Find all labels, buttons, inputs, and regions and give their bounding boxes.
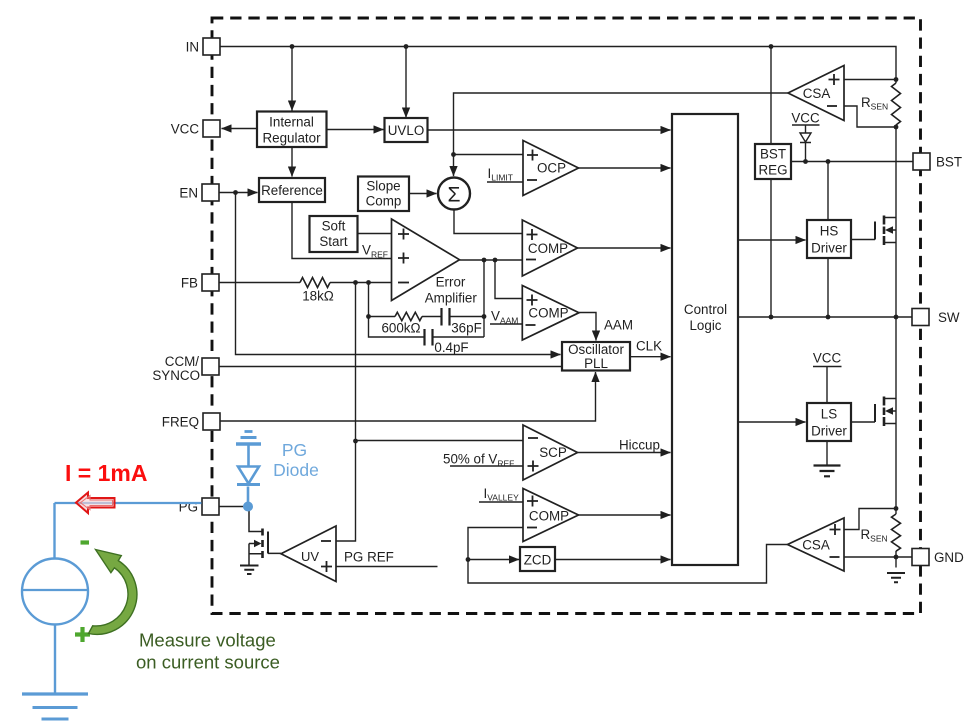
svg-text:Control: Control	[684, 302, 727, 317]
svg-text:PLL: PLL	[584, 356, 608, 371]
svg-text:COMP: COMP	[528, 241, 568, 256]
svg-text:LS: LS	[821, 407, 837, 422]
svg-text:CCM/: CCM/	[165, 354, 199, 369]
svg-text:0.4pF: 0.4pF	[434, 340, 468, 355]
svg-text:PG REF: PG REF	[344, 550, 394, 565]
svg-text:Driver: Driver	[811, 424, 847, 439]
svg-text:Diode: Diode	[273, 460, 319, 480]
svg-text:BST: BST	[760, 147, 786, 162]
svg-text:Regulator: Regulator	[262, 131, 321, 146]
svg-text:36pF: 36pF	[451, 321, 482, 336]
svg-text:Amplifier: Amplifier	[425, 291, 478, 306]
svg-text:OCP: OCP	[537, 161, 566, 176]
svg-text:Error: Error	[436, 275, 466, 290]
svg-text:PG: PG	[179, 500, 198, 515]
svg-text:SYNCO: SYNCO	[152, 368, 200, 383]
svg-text:Soft: Soft	[322, 219, 346, 234]
svg-text:GND: GND	[934, 550, 964, 565]
svg-text:VAAM: VAAM	[491, 309, 518, 326]
svg-text:VCC: VCC	[171, 122, 200, 137]
svg-text:VCC: VCC	[791, 111, 820, 126]
svg-text:I = 1mA: I = 1mA	[65, 460, 147, 486]
svg-text:18kΩ: 18kΩ	[302, 289, 334, 304]
svg-text:Reference: Reference	[261, 183, 323, 198]
svg-text:SCP: SCP	[539, 445, 567, 460]
svg-text:Logic: Logic	[689, 318, 721, 333]
svg-text:FREQ: FREQ	[162, 415, 199, 430]
svg-text:Measure voltage: Measure voltage	[139, 630, 276, 651]
svg-text:BST: BST	[936, 155, 962, 170]
svg-text:AAM: AAM	[604, 318, 633, 333]
svg-text:Driver: Driver	[811, 241, 847, 256]
svg-text:SW: SW	[938, 310, 960, 325]
svg-text:Start: Start	[319, 234, 348, 249]
svg-text:IN: IN	[186, 40, 199, 55]
svg-text:Comp: Comp	[366, 194, 402, 209]
svg-text:PG: PG	[282, 440, 307, 460]
svg-text:ILIMIT: ILIMIT	[488, 166, 513, 183]
svg-text:CSA: CSA	[802, 538, 830, 553]
svg-text:EN: EN	[179, 186, 198, 201]
svg-text:Internal: Internal	[269, 115, 314, 130]
svg-text:RSEN: RSEN	[861, 95, 888, 112]
svg-text:VCC: VCC	[813, 351, 842, 366]
svg-text:Slope: Slope	[366, 179, 400, 194]
svg-text:ZCD: ZCD	[524, 553, 552, 568]
svg-text:FB: FB	[181, 276, 198, 291]
svg-text:Oscillator: Oscillator	[568, 342, 624, 357]
svg-text:Hiccup: Hiccup	[619, 438, 660, 453]
svg-text:RSEN: RSEN	[861, 527, 888, 544]
svg-text:Σ: Σ	[448, 184, 461, 207]
svg-text:IVALLEY: IVALLEY	[484, 486, 520, 503]
svg-text:REG: REG	[758, 163, 787, 178]
svg-text:UVLO: UVLO	[388, 123, 424, 138]
svg-text:600kΩ: 600kΩ	[381, 321, 420, 336]
svg-text:on current source: on current source	[136, 652, 280, 673]
svg-text:CSA: CSA	[803, 86, 831, 101]
svg-text:COMP: COMP	[528, 306, 568, 321]
svg-text:UV: UV	[301, 549, 319, 564]
svg-text:COMP: COMP	[529, 509, 569, 524]
svg-text:CLK: CLK	[636, 339, 662, 354]
svg-text:HS: HS	[820, 224, 839, 239]
svg-text:50% of VREF: 50% of VREF	[443, 452, 514, 469]
svg-text:VREF: VREF	[362, 243, 388, 260]
